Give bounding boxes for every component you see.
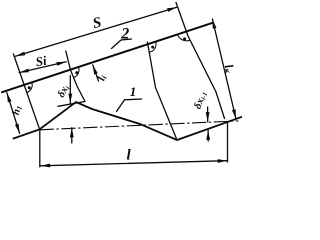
svg-text:l: l — [127, 148, 132, 164]
svg-text:δxi-1: δxi-1 — [193, 90, 210, 111]
perpendicular at F1 (station i) — [66, 51, 85, 102]
perpendicular at D2 (last station) — [176, 3, 225, 119]
svg-text:h1: h1 — [11, 104, 24, 116]
dimension delta-xi-1 upper arrow — [207, 107, 209, 122]
leader for label 1 — [117, 99, 142, 112]
dimension delta-xi lower arrow — [71, 128, 73, 143]
dimension Si — [19, 62, 66, 73]
angle mark at A — [27, 82, 32, 92]
dimension delta-xi-1 lower arrow — [207, 130, 209, 141]
dimension S — [16, 7, 177, 56]
svg-text:δxi: δxi — [56, 83, 72, 99]
horizontal reference line through peak — [58, 102, 85, 107]
left extension vertical — [39, 130, 41, 167]
right extension vertical — [227, 122, 229, 162]
line 1 (terrain profile polyline) — [14, 102, 243, 140]
dimension delta-xi upper arrow — [69, 76, 71, 104]
svg-text:1: 1 — [130, 84, 137, 99]
dimension li (arrow to line 2) — [93, 65, 99, 81]
perpendicular at D1 — [147, 42, 177, 140]
angle mark at D1 — [149, 42, 156, 52]
svg-text:Si: Si — [34, 53, 48, 70]
svg-text:li: li — [95, 73, 109, 83]
angle mark at D2 — [178, 34, 190, 40]
svg-text:2: 2 — [120, 26, 129, 43]
svg-text:S: S — [91, 15, 103, 32]
dimension h1 — [7, 93, 20, 134]
dimension lk — [212, 19, 236, 119]
line 2 (inclined measuring line) — [2, 23, 213, 93]
dimension l (bottom) — [41, 161, 228, 166]
angle mark at F1 — [74, 68, 79, 78]
leader for label 2 — [112, 39, 132, 49]
perpendicular at A (left station) — [13, 54, 39, 129]
centerline (dash-dot datum) — [40, 121, 238, 130]
